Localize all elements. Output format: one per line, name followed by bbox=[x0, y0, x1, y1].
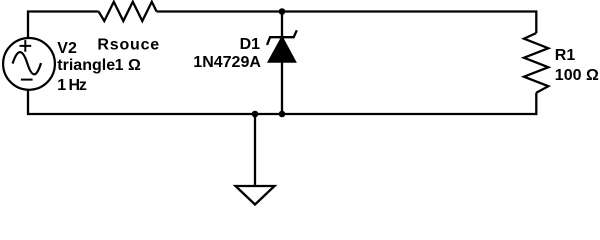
node: diode top junction bbox=[279, 8, 286, 15]
zener diode D1 bbox=[267, 30, 297, 62]
svg-text:1N4729A: 1N4729A bbox=[193, 54, 261, 71]
svg-text:R1: R1 bbox=[555, 47, 576, 64]
svg-text:triangle: triangle bbox=[57, 57, 115, 74]
svg-text:100 Ω: 100 Ω bbox=[555, 67, 599, 84]
svg-text:1 Ω: 1 Ω bbox=[115, 57, 141, 74]
wire right: R1 bottom to bottom rail bbox=[28, 90, 536, 115]
wire: diode branch vertical bbox=[281, 12, 283, 115]
svg-text:1 Hz: 1 Hz bbox=[57, 77, 87, 94]
node: diode bottom junction bbox=[279, 111, 286, 118]
svg-text:Rsouce: Rsouce bbox=[97, 37, 160, 54]
wire top: Rsouce to right corner bbox=[157, 12, 537, 34]
voltage source V2 bbox=[3, 38, 55, 90]
resistor R1 bbox=[524, 33, 548, 93]
svg-text:D1: D1 bbox=[240, 36, 261, 53]
wire top-left: source top to Rsouce bbox=[28, 12, 99, 39]
node: ground junction bbox=[252, 111, 259, 118]
ground bbox=[236, 114, 275, 205]
resistor Rsouce bbox=[99, 2, 157, 21]
svg-text:V2: V2 bbox=[57, 40, 77, 57]
